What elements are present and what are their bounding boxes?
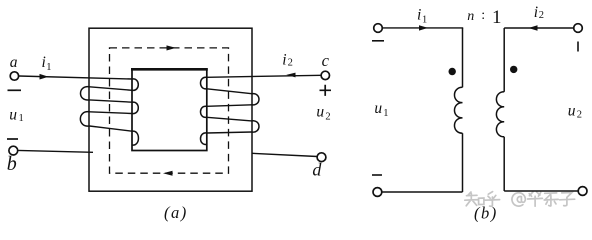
watermark zhihu <box>465 192 575 207</box>
right winding cross wire 3 <box>207 105 252 107</box>
core window top edge thick <box>131 68 208 71</box>
svg-text::: : <box>481 8 485 23</box>
left winding outer loop 1 <box>81 87 90 100</box>
left winding cross wire 5 <box>90 126 133 131</box>
top wire right branch <box>504 27 574 29</box>
left winding cross wire 3 <box>90 100 133 102</box>
flux arrow top (right) <box>167 45 177 50</box>
secondary winding vertical lead upper <box>503 28 505 92</box>
left winding outer loop 2 <box>80 112 89 126</box>
left winding cross wire 4 <box>90 112 133 114</box>
svg-text:1: 1 <box>19 113 24 124</box>
polarity bar below top-left terminal <box>372 40 384 42</box>
transformer core outer outline (a) <box>89 28 252 191</box>
bottom wire right branch <box>504 190 578 192</box>
svg-text:1: 1 <box>422 14 427 25</box>
terminal bottom-left (b) <box>373 188 382 197</box>
svg-text:n: n <box>467 9 474 24</box>
svg-text:u: u <box>9 106 17 123</box>
svg-text:u: u <box>374 100 382 117</box>
svg-text:c: c <box>322 51 330 70</box>
svg-text:u: u <box>316 103 324 120</box>
svg-text:i: i <box>282 52 286 69</box>
current arrow i2 <box>286 73 295 78</box>
svg-text:(a): (a) <box>164 203 188 222</box>
svg-text:b: b <box>7 153 17 175</box>
svg-text:i: i <box>42 54 46 71</box>
polarity bar below top-right terminal <box>577 42 579 52</box>
polarity bar upper left <box>8 89 22 91</box>
terminal d <box>317 153 326 162</box>
current arrow i2 (b) <box>529 25 538 30</box>
svg-text:i: i <box>534 4 538 21</box>
current arrow i1 <box>40 74 49 80</box>
terminal bottom-right (b) <box>578 187 587 196</box>
svg-text:2: 2 <box>577 110 582 121</box>
terminal a <box>10 72 18 80</box>
left winding turn bump 2 <box>132 102 138 113</box>
current arrow i1 (b) <box>419 25 428 30</box>
right winding cross wire 5 <box>207 132 252 133</box>
primary coil L1 <box>454 87 462 133</box>
svg-text:u: u <box>568 102 576 119</box>
primary winding vertical lead upper <box>462 28 464 87</box>
svg-text:1: 1 <box>383 108 388 119</box>
wire b stub <box>18 150 93 152</box>
dot mark primary <box>449 68 456 75</box>
polarity bar above bottom-left terminal <box>372 174 382 176</box>
wire c to winding <box>207 75 321 77</box>
svg-text:(b): (b) <box>474 204 498 223</box>
right winding outer loop 2 <box>252 121 259 132</box>
wire d stub <box>252 153 317 156</box>
svg-text:1: 1 <box>492 7 502 28</box>
right winding turn bump 1 <box>201 77 207 89</box>
terminal top-right (b) <box>574 24 583 33</box>
left winding turn bump 3 <box>132 131 138 145</box>
right winding cross wire 4 <box>207 117 252 121</box>
right winding turn bump 3 <box>201 133 207 145</box>
svg-text:2: 2 <box>539 10 544 21</box>
svg-text:a: a <box>10 54 18 71</box>
dot mark secondary <box>510 66 517 73</box>
plus sign right <box>320 85 332 96</box>
secondary coil L2 <box>496 92 504 137</box>
core window inner rectangle <box>132 69 207 150</box>
right winding outer loop 1 <box>252 94 259 105</box>
svg-text:2: 2 <box>325 112 330 123</box>
secondary winding vertical lead lower <box>503 137 505 191</box>
left winding cross wire 2 <box>90 87 133 91</box>
svg-text:d: d <box>312 160 322 180</box>
flux arrow bottom (left) <box>163 171 173 176</box>
top wire left branch <box>383 27 464 29</box>
terminal c <box>321 71 329 79</box>
polarity bar lower left <box>7 138 18 140</box>
wire a to winding <box>19 76 132 79</box>
left winding turn bump 1 <box>132 79 138 90</box>
flux path dashed loop <box>110 48 229 173</box>
terminal top-left (b) <box>374 24 383 33</box>
primary winding vertical lead lower <box>462 133 464 192</box>
svg-text:i: i <box>417 6 421 23</box>
svg-text:2: 2 <box>288 58 293 69</box>
right winding turn bump 2 <box>201 106 207 117</box>
right winding cross wire 2 <box>207 89 252 94</box>
bottom wire left branch <box>382 191 463 193</box>
terminal b <box>9 146 18 155</box>
svg-text:1: 1 <box>46 62 51 73</box>
